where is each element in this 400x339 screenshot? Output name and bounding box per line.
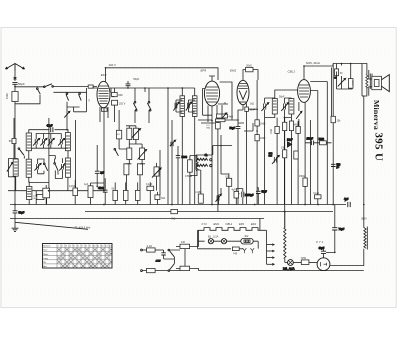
- svg-text:7kΩ: 7kΩ: [161, 197, 166, 200]
- wire CBL1 side stubs: [310, 82, 327, 143]
- transformer output primary: [362, 64, 368, 97]
- capacitor 5000 coupling: [176, 146, 188, 205]
- svg-text:1MΩ: 1MΩ: [270, 129, 273, 134]
- capacitor 10nF EM1: [245, 107, 256, 205]
- wire mains top to switch: [155, 249, 163, 251]
- resistor 1MΩ det: [270, 126, 279, 134]
- wire right block rails: [305, 64, 333, 205]
- switch S1 wave band: [44, 84, 54, 88]
- capacitor +50µF em: [256, 191, 267, 193]
- junction dots bus: [14, 204, 334, 213]
- svg-text:0,1Ω: 0,1Ω: [147, 245, 152, 248]
- fuse 0,1 top: [147, 245, 156, 252]
- wire coil bank bottom bus: [8, 190, 104, 192]
- svg-text:EM1: EM1: [230, 69, 237, 73]
- svg-text:Mittel: Mittel: [43, 253, 49, 256]
- wire grid line to switch: [15, 86, 44, 88]
- capacitor 0,1 box mid: [226, 176, 232, 186]
- resistor 0,5MΩ af: [185, 160, 192, 178]
- svg-text:50pF: 50pF: [133, 77, 139, 81]
- coil L5: [54, 159, 58, 175]
- ground main: [12, 219, 19, 232]
- capacitor bottom c: [135, 182, 140, 204]
- wire coil bank top: [29, 130, 68, 133]
- svg-text:EK2: EK2: [251, 222, 257, 226]
- coil L2: [65, 133, 70, 151]
- resistor 0,1MΩ EF9: [207, 123, 221, 130]
- junction dots misc: [14, 65, 364, 253]
- resistor 1MΩ a: [255, 120, 266, 126]
- svg-text:50µF: 50µF: [19, 211, 25, 214]
- resistor 150 lower right: [299, 175, 307, 186]
- diode marker 30pF: [287, 139, 293, 147]
- resistor 10kΩ EM1: [246, 65, 258, 80]
- tap arrow 1: [267, 244, 275, 246]
- wire down-lead left rail: [14, 104, 16, 205]
- mains terminals: [141, 249, 143, 271]
- svg-text:4kΩ: 4kΩ: [229, 116, 234, 119]
- svg-text:ZF: 428,5 kHz: ZF: 428,5 kHz: [73, 226, 91, 230]
- wire main bus B+: [10, 204, 346, 206]
- capacitor 0,1µF flat: [242, 192, 254, 198]
- capacitor 100pF + resistor 5000 top right: [305, 139, 331, 146]
- svg-text:50/50µF: 50/50µF: [245, 195, 254, 197]
- svg-text:5000: 5000: [182, 156, 188, 159]
- coil IFT2 primary: [272, 99, 277, 115]
- capacitor 1µF bottom left: [84, 183, 104, 205]
- wire mid lower rails: [219, 173, 243, 204]
- tube EK2: [97, 73, 110, 108]
- trimmer osc top: [132, 129, 141, 138]
- svg-text:50pF: 50pF: [230, 127, 236, 130]
- wire EF9 IF input left: [203, 89, 212, 116]
- choke af zigzag: [196, 156, 198, 174]
- wire output top line: [333, 64, 362, 70]
- coil IFT2 secondary: [279, 96, 294, 115]
- chassis arrow b: [250, 248, 254, 253]
- switch band b: [79, 92, 82, 100]
- svg-text:740: 740: [233, 253, 238, 256]
- trimmer mid vertical: [170, 120, 176, 205]
- transformer core: [370, 74, 372, 90]
- coil IFT2 primary trimmer: [261, 103, 268, 111]
- table grid: [43, 244, 113, 269]
- svg-text:C Y 1: C Y 1: [316, 240, 324, 244]
- resistor mains ballast zigzag: [364, 205, 368, 250]
- wire IF note pointer: [15, 222, 88, 229]
- trimmer pad ch: [216, 194, 222, 202]
- capacitor 500pF right: [331, 164, 341, 169]
- switch S2: [37, 88, 41, 94]
- svg-text:1MΩ: 1MΩ: [5, 93, 9, 99]
- svg-text:Bereich: Bereich: [43, 245, 51, 248]
- wire switch to fuse boxes: [170, 250, 180, 271]
- tap arrow 3: [267, 257, 275, 259]
- wire EF9 bottom rails: [208, 105, 217, 205]
- wire EM1 top to resistor: [243, 70, 246, 81]
- coil osc 1: [173, 96, 184, 117]
- resistor 0,1MΩ right: [283, 122, 287, 130]
- svg-text:50pF: 50pF: [18, 82, 25, 86]
- resistor 0,1MΩ ch: [195, 192, 204, 203]
- svg-text:192 V: 192 V: [109, 63, 117, 67]
- resistor 100Ω field coil: [348, 64, 354, 90]
- svg-text:50µF: 50µF: [262, 192, 268, 194]
- svg-text:12pF: 12pF: [287, 139, 293, 142]
- resistor det lower: [294, 151, 298, 159]
- svg-text:EM1: EM1: [214, 222, 220, 226]
- trimmer T6: [59, 163, 66, 170]
- switch mains b: [164, 257, 175, 271]
- svg-text:7kΩ: 7kΩ: [171, 218, 175, 220]
- resistor 740: [232, 247, 243, 256]
- tube EM1: [230, 69, 249, 105]
- resistor 30 left: [9, 138, 16, 143]
- svg-text:0,1µF: 0,1µF: [313, 193, 320, 195]
- svg-text:102 V: 102 V: [119, 101, 126, 105]
- resistor 1,05: [112, 100, 126, 105]
- chassis arrow a: [243, 248, 247, 253]
- resistor 100 mains a: [176, 241, 199, 266]
- wire EK2 anode to 192V line: [105, 68, 107, 82]
- wire band drop to coils: [66, 107, 68, 130]
- svg-text:47kΩ: 47kΩ: [98, 187, 104, 190]
- svg-text:Kurz: Kurz: [43, 249, 47, 252]
- switch coil left: [18, 148, 24, 155]
- svg-text:7150: 7150: [301, 257, 307, 260]
- wire dropper to lamp: [285, 262, 287, 264]
- resistor pair bottom a: [112, 187, 118, 200]
- wire heater chain left drop: [198, 230, 205, 249]
- wire IFT2 frame: [265, 90, 298, 205]
- resistor 15k mid right: [331, 116, 341, 122]
- wire L3 frame: [8, 159, 18, 191]
- resistor 100 mains b: [176, 266, 199, 270]
- svg-text:CY1: CY1: [202, 222, 208, 226]
- resistor 10: [33, 195, 46, 200]
- capacitor 4µF bus: [344, 198, 350, 208]
- lamp B1 dial b: [214, 239, 241, 244]
- resistor antenna 1MΩ: [5, 92, 18, 102]
- svg-text:1µF: 1µF: [84, 183, 89, 186]
- tube CY1 rectifier: [317, 258, 330, 271]
- capacitor 0,1 tone: [335, 69, 343, 78]
- svg-text:St2: St2: [245, 235, 249, 238]
- wire EM1 divider rail: [256, 80, 258, 205]
- capacitor mains filter: [156, 250, 166, 263]
- wire EF9 to EM1 couplers: [198, 82, 238, 123]
- tube EF9: [201, 69, 220, 106]
- wire osc mid rail: [111, 88, 168, 205]
- wire main bus 3 ground: [10, 218, 264, 220]
- wire heater right drop: [260, 219, 267, 236]
- wire 192V top line: [106, 68, 219, 80]
- wire EF9 cathode: [218, 105, 222, 212]
- capacitor 4µF electrolytic: [232, 190, 241, 198]
- resistor 0,1MΩ bottom left: [69, 180, 78, 205]
- svg-text:L01 , 0,1A: L01 , 0,1A: [283, 268, 295, 271]
- lamp L01: [283, 260, 295, 271]
- coil L7 bottom left: [27, 182, 32, 205]
- switch osc 1: [133, 88, 137, 123]
- capacitor padding 1000 a: [127, 128, 132, 139]
- svg-text:395 U: 395 U: [372, 133, 384, 162]
- svg-text:0,1µF: 0,1µF: [146, 183, 153, 186]
- resistor 15k right: [281, 147, 287, 158]
- potentiometer CBL1 bias: [296, 102, 302, 127]
- switch mains a: [168, 249, 174, 257]
- table row labels: [43, 245, 51, 269]
- coil L3 antenna low: [7, 159, 18, 176]
- svg-text:Aus: Aus: [43, 265, 47, 268]
- coil L1: [26, 133, 31, 151]
- fuse 0,1 bottom: [142, 269, 168, 273]
- table switching matrix frame: [43, 244, 113, 269]
- capacitor 50pF osc: [126, 81, 131, 89]
- resistor 0,1MΩ anode top: [215, 119, 225, 122]
- tube CBL1: [288, 70, 311, 103]
- coil L4: [26, 159, 31, 177]
- wire EM1 bottom: [238, 104, 247, 121]
- switch coil mid: [43, 163, 47, 171]
- svg-text:70µF: 70µF: [339, 228, 345, 231]
- svg-text:1kΩ: 1kΩ: [250, 104, 254, 106]
- svg-text:MΩ: MΩ: [207, 128, 211, 130]
- wire bank to bus verticals: [36, 191, 46, 205]
- lamp B1 dial a: [208, 239, 213, 244]
- node antenna tap: [14, 77, 17, 79]
- wire heater chain with humps: [198, 228, 267, 231]
- wire CBL1 anode top: [304, 66, 333, 80]
- capacitor 50pF ef9: [230, 120, 241, 205]
- capacitor 70µF: [332, 228, 345, 231]
- svg-text:EF9: EF9: [201, 69, 207, 73]
- wire osc coil frame: [196, 135, 232, 195]
- table header ticks: [58, 245, 113, 247]
- wire lamp to fuse: [293, 262, 301, 264]
- barretter St2: [241, 238, 253, 244]
- trimmer band drop: [64, 111, 69, 117]
- resistor 0,3MΩ det: [291, 123, 301, 133]
- wire mid row connections: [29, 118, 76, 191]
- capacitor 40µF cathode: [319, 247, 335, 258]
- svg-text:5000: 5000: [319, 139, 325, 141]
- svg-text:600: 600: [118, 93, 123, 97]
- wire band bus lower: [53, 88, 86, 112]
- wire EK2 grid top: [93, 87, 97, 88]
- wire top row connections: [29, 134, 68, 160]
- potentiometer 4kΩ: [217, 113, 234, 121]
- svg-text:600V, 40mA: 600V, 40mA: [306, 61, 320, 65]
- capacitor 47k label: [98, 178, 108, 204]
- switch band mid: [114, 149, 118, 156]
- antenna: [6, 64, 25, 72]
- resistor 600: [112, 93, 124, 98]
- resistor 1000 bottom: [155, 192, 165, 205]
- wire EF9 top cap: [209, 76, 215, 81]
- trimmer T2: [40, 138, 47, 145]
- trimmer T1: [33, 138, 40, 145]
- wire mains to heater rail: [199, 230, 364, 270]
- svg-text:EF9: EF9: [239, 222, 244, 226]
- svg-text:Minerva: Minerva: [372, 100, 381, 130]
- wire EK2 cathode rails: [100, 88, 115, 191]
- table X marks: [58, 248, 113, 267]
- trimmer T5: [34, 163, 41, 170]
- wire det rails: [277, 118, 298, 229]
- wire right rail from speaker: [362, 64, 364, 205]
- tap arrow 2: [267, 250, 275, 252]
- wire antenna resistor loop: [15, 95, 40, 104]
- capacitor 0,1µF bottom: [146, 182, 154, 204]
- capacitor 50µF reservoir: [13, 205, 25, 219]
- svg-text:4µF: 4µF: [232, 190, 237, 192]
- capacitor 1000 mid: [127, 148, 132, 160]
- trimmer 1000 mid: [138, 148, 147, 160]
- coil L6: [65, 158, 70, 177]
- resistor 100 grid stopper: [88, 85, 93, 101]
- capacitor 50µF mid: [257, 188, 258, 205]
- wire CY1 output right: [330, 249, 364, 266]
- wire to EK2 grid: [53, 86, 97, 88]
- svg-text:100Ω: 100Ω: [353, 80, 355, 86]
- svg-text:CBL1: CBL1: [288, 70, 296, 74]
- trimmer CB1: [269, 153, 280, 164]
- wire mains top lead: [142, 249, 146, 251]
- svg-text:100: 100: [181, 241, 186, 244]
- wire left branch: [14, 118, 24, 159]
- capacitor 0,1µF bus right: [313, 193, 321, 199]
- wire osc section verticals: [119, 110, 156, 191]
- resistor padder 1,05: [117, 130, 122, 139]
- capacitor 2µF: [95, 145, 105, 186]
- resistor 8kΩ: [289, 121, 293, 131]
- trimmer IFT2 secondary: [281, 103, 288, 111]
- wire taps rail: [266, 235, 268, 264]
- resistor dropper zigzag: [284, 212, 286, 263]
- wire 70µF rail: [334, 205, 336, 253]
- svg-text:150Ω: 150Ω: [299, 175, 305, 178]
- trimmer T3: [48, 138, 55, 145]
- capacitor 47pF: [47, 123, 53, 132]
- capacitor 5µF on bus: [171, 210, 178, 221]
- speaker LS: [369, 70, 390, 96]
- fuse 7150: [301, 257, 318, 265]
- wire main bus 2: [85, 211, 333, 213]
- wire osc coil rails: [145, 88, 195, 205]
- resistor 46 bottom left: [43, 185, 50, 205]
- svg-text:47pF: 47pF: [47, 123, 53, 127]
- svg-text:B1 , 0,2A: B1 , 0,2A: [208, 235, 219, 238]
- wire antenna lead: [14, 71, 16, 81]
- wire EK2 output right: [110, 88, 145, 92]
- trimmer small right: [152, 167, 161, 178]
- label Minerva 395 U: [372, 100, 385, 161]
- capacitor 50pF antenna: [12, 82, 17, 91]
- svg-text:0,1MΩ: 0,1MΩ: [195, 192, 202, 194]
- resistor 1MΩ b: [255, 135, 266, 141]
- switch band a: [66, 92, 69, 100]
- tap arrow 4: [267, 263, 275, 265]
- capacitor padding 1000 b: [133, 128, 138, 139]
- resistor cathode EK2: [102, 108, 108, 111]
- coil osc 2: [186, 96, 197, 117]
- wire misc horizontals mid: [218, 104, 258, 131]
- svg-text:2µF: 2µF: [100, 173, 105, 175]
- potentiometer tone: [334, 64, 352, 90]
- switch osc 2: [147, 88, 151, 123]
- wire af group frame: [190, 156, 197, 205]
- oscillator coil Ch: [197, 155, 212, 167]
- resistor pair bottom b: [115, 182, 128, 204]
- wire St2 to taps: [198, 241, 259, 249]
- capacitor 500 b: [137, 164, 142, 175]
- svg-text:CBL1: CBL1: [226, 222, 233, 226]
- svg-text:30kΩ: 30kΩ: [246, 65, 252, 68]
- trimmer T4: [58, 138, 65, 145]
- capacitor 500 a: [124, 164, 129, 175]
